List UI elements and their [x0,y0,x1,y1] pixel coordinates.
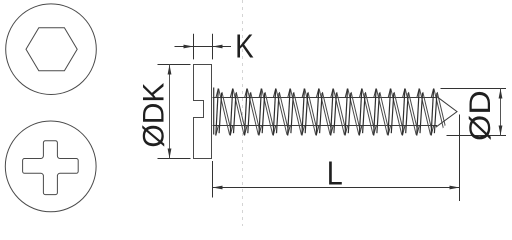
thread core line bottom [213,125,438,127]
thread flank lines 7 [305,89,316,135]
thread crest 15 [417,89,419,98]
hex recess [26,28,77,71]
head top view circle (phillips) [5,121,96,212]
thread flank lines 10 [348,89,359,135]
thread crest 13 [388,89,390,98]
dimension L extension lines [212,161,214,198]
thread crest 16 [431,89,433,98]
thread crest 8 [316,89,318,98]
dimension D extension lines [441,88,507,90]
thread crest 10 [345,89,347,98]
head top view circle (hex socket) [6,4,97,95]
screw point (cone) [436,96,457,127]
shank junction edge [213,88,215,135]
thread crest 12 [374,89,376,98]
thread flank lines 13 [391,89,402,135]
thread crest 5 [273,89,275,98]
thread flank lines 8 [319,89,330,135]
svg-text:ØD: ØD [464,90,497,141]
vertical dashed centerline [242,0,244,226]
thread crest 1 [216,89,218,98]
thread flank lines 12 [376,89,387,135]
thread flank lines 1 [219,89,230,135]
dimension K line [175,46,232,48]
thread crest 14 [403,89,405,98]
thread flank lines 4 [262,89,273,135]
thread flank lines 2 [233,89,244,135]
thread flank lines 15 [420,89,431,135]
thread flank lines 9 [333,89,344,135]
phillips cross recess [23,141,79,195]
dimension K extension lines [193,34,195,60]
thread crest 4 [259,89,261,98]
thread flank lines 5 [276,89,287,135]
thread crest 7 [302,89,304,98]
thread crest 9 [331,89,333,98]
svg-text:ØDK: ØDK [138,82,171,147]
thread crest 11 [360,89,362,98]
thread crest 3 [245,89,247,98]
dimension L line [213,187,460,189]
screw head (side view with slot) [194,65,212,159]
thread flank lines 3 [247,89,258,135]
thread flank lines 16 [434,89,445,135]
svg-text:L: L [327,155,343,192]
dimension DK line [169,65,171,159]
dimension DK extension lines [158,64,191,66]
thread core line top [213,97,438,99]
dimension D line [500,89,502,136]
thread crest 2 [230,89,232,98]
thread flank lines 14 [405,89,416,135]
svg-text:K: K [235,28,254,65]
threaded shank [213,88,446,136]
thread flank lines 11 [362,89,373,135]
thread crest 6 [288,89,290,98]
thread flank lines 6 [290,89,301,135]
